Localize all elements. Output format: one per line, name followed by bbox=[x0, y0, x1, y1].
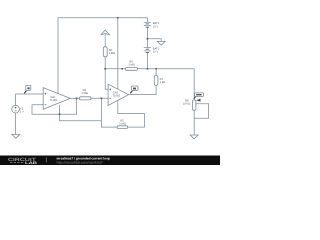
svg-text:1 MΩ: 1 MΩ bbox=[119, 122, 126, 125]
svg-text:15 V: 15 V bbox=[153, 25, 159, 28]
svg-text:http://circuitlab.com/c/prk2q7: http://circuitlab.com/c/prk2q7 bbox=[57, 160, 103, 164]
svg-text:TL081: TL081 bbox=[50, 99, 58, 102]
svg-text:100 Ω: 100 Ω bbox=[183, 103, 190, 106]
svg-text:1 V: 1 V bbox=[20, 111, 24, 114]
svg-text:LAB: LAB bbox=[25, 161, 38, 165]
svg-text:15 V: 15 V bbox=[153, 51, 159, 54]
svg-text:1 MΩ: 1 MΩ bbox=[81, 92, 88, 95]
svg-text:1 MΩ: 1 MΩ bbox=[109, 52, 116, 55]
svg-text:1 kΩ: 1 kΩ bbox=[160, 81, 166, 84]
svg-text:TL081: TL081 bbox=[113, 95, 121, 98]
svg-text:1 MΩ: 1 MΩ bbox=[128, 64, 135, 67]
